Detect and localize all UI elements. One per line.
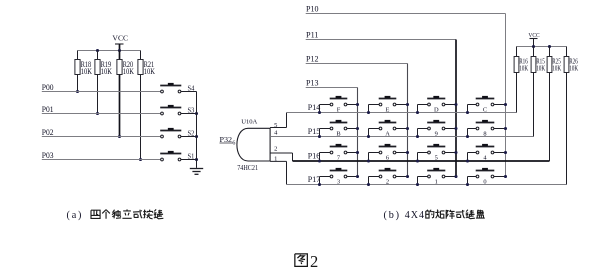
svg-text:S2: S2 bbox=[188, 130, 195, 138]
svg-text:6: 6 bbox=[232, 141, 235, 147]
svg-text:P16: P16 bbox=[308, 151, 321, 160]
svg-text:10K: 10K bbox=[552, 65, 561, 73]
svg-text:4X4: 4X4 bbox=[405, 210, 425, 221]
svg-text:D: D bbox=[434, 107, 439, 114]
svg-text:(b): (b) bbox=[384, 210, 401, 221]
svg-text:P10: P10 bbox=[306, 5, 319, 14]
svg-text:1: 1 bbox=[435, 179, 438, 186]
svg-text:P12: P12 bbox=[306, 55, 319, 64]
svg-text:10K: 10K bbox=[536, 65, 545, 73]
svg-text:E: E bbox=[386, 107, 390, 114]
svg-text:5: 5 bbox=[435, 155, 438, 162]
svg-text:B: B bbox=[336, 131, 340, 138]
svg-text:2: 2 bbox=[310, 252, 318, 271]
svg-text:6: 6 bbox=[386, 155, 389, 162]
svg-text:A: A bbox=[385, 131, 390, 138]
svg-text:74HC21: 74HC21 bbox=[237, 165, 258, 172]
svg-text:U10A: U10A bbox=[241, 119, 257, 126]
svg-text:10K: 10K bbox=[144, 67, 155, 76]
svg-text:10K: 10K bbox=[81, 67, 92, 76]
svg-text:4: 4 bbox=[274, 129, 278, 136]
svg-text:2: 2 bbox=[274, 146, 277, 153]
svg-text:P15: P15 bbox=[308, 127, 321, 136]
svg-text:P02: P02 bbox=[42, 128, 54, 137]
svg-text:P01: P01 bbox=[42, 105, 54, 114]
svg-text:9: 9 bbox=[435, 131, 438, 138]
svg-text:0: 0 bbox=[483, 179, 486, 186]
svg-text:3: 3 bbox=[337, 179, 340, 186]
svg-text:10K: 10K bbox=[123, 67, 134, 76]
svg-text:S3: S3 bbox=[188, 107, 195, 115]
svg-text:10K: 10K bbox=[519, 65, 528, 73]
svg-text:VCC: VCC bbox=[528, 32, 539, 39]
svg-text:P11: P11 bbox=[306, 31, 319, 40]
svg-text:S1: S1 bbox=[188, 153, 195, 161]
svg-text:VCC: VCC bbox=[112, 34, 128, 43]
svg-text:P13: P13 bbox=[306, 79, 319, 88]
svg-text:(a): (a) bbox=[67, 210, 84, 221]
svg-text:F: F bbox=[337, 107, 341, 114]
svg-text:C: C bbox=[483, 107, 487, 114]
svg-text:P17: P17 bbox=[308, 175, 321, 184]
svg-text:10K: 10K bbox=[101, 67, 112, 76]
svg-text:10K: 10K bbox=[569, 65, 578, 73]
svg-text:P00: P00 bbox=[42, 83, 54, 92]
svg-text:P03: P03 bbox=[42, 151, 54, 160]
svg-text:8: 8 bbox=[483, 131, 486, 138]
svg-text:S4: S4 bbox=[188, 85, 195, 93]
svg-text:P14: P14 bbox=[308, 103, 321, 112]
svg-text:2: 2 bbox=[386, 179, 389, 186]
